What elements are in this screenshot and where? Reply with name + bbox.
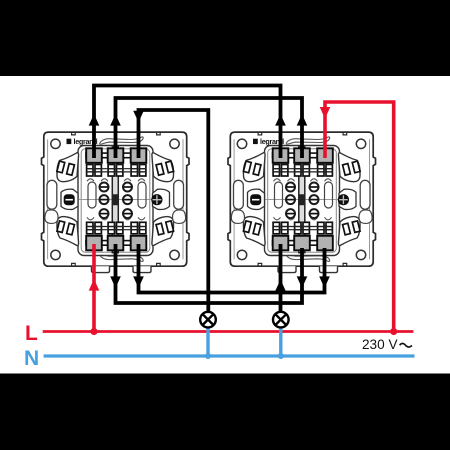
svg-text:N: N <box>24 347 39 370</box>
sine symbol <box>400 343 412 347</box>
junction dot N lamp2 <box>278 353 284 359</box>
junction dot N lamp1 <box>205 353 211 359</box>
wire lamp1 feed from S1 top T3 <box>139 110 209 313</box>
wire traveler bottom bus lower <box>116 244 303 303</box>
neutral stub lamp1 <box>206 327 209 357</box>
wire lamp2 feed from S2 bottom T1 <box>279 244 283 313</box>
switch S2 <box>228 132 376 273</box>
junction dot L left <box>90 328 97 335</box>
L rail red <box>43 330 414 333</box>
arrow down S2 bottom T3 <box>319 276 330 288</box>
wire L feed red to S2 top T3 <box>325 102 394 332</box>
arrow up red S1 bottom T1 <box>89 279 100 291</box>
svg-text:L: L <box>25 322 38 345</box>
arrow down S1 bottom T3 <box>133 276 144 288</box>
wire traveler bus 2 <box>116 98 303 158</box>
arrow up S2 T2 <box>297 114 308 126</box>
lamp E2 <box>273 312 289 328</box>
wire traveler bus 1 <box>94 86 281 159</box>
wire red L to S1 bottom T1 <box>92 244 96 332</box>
svg-text:230 V: 230 V <box>362 337 398 352</box>
arrow down red S2 T3 <box>320 107 331 119</box>
arrow up S2 T1 <box>275 114 286 126</box>
arrow down S2 bottom T2 <box>297 276 308 288</box>
lamp E1 <box>200 312 216 328</box>
neutral stub lamp2 <box>279 327 282 357</box>
arrow down S1 T3 <box>133 111 144 123</box>
arrow up S1 T1 <box>89 114 100 126</box>
arrow up S1 T2 <box>110 114 121 126</box>
black bar top <box>0 0 450 76</box>
black bar bottom <box>0 374 450 450</box>
wire traveler bottom bus upper <box>139 244 325 293</box>
switch S1 <box>42 132 190 273</box>
arrow up S2 bottom T1 <box>275 280 286 292</box>
junction dot L right <box>390 328 397 335</box>
arrow down S1 bottom T2 <box>110 276 121 288</box>
N rail blue <box>44 354 415 357</box>
